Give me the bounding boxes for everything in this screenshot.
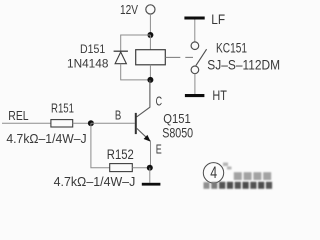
- wire: [91, 123, 110, 167]
- diode D151: [114, 51, 128, 64]
- wire: [149, 35, 151, 50]
- wire: [121, 35, 151, 51]
- svg-text:R152: R152: [107, 147, 134, 162]
- svg-text:HT: HT: [212, 88, 227, 103]
- svg-text:4: 4: [210, 163, 217, 182]
- svg-text:E: E: [156, 141, 162, 156]
- terminal HT bar: [185, 94, 205, 97]
- svg-text:4.7kΩ–1/4W–J: 4.7kΩ–1/4W–J: [54, 174, 136, 189]
- svg-text:SJ–S–112DM: SJ–S–112DM: [207, 57, 280, 72]
- wire: [132, 167, 150, 169]
- wire: [2, 122, 51, 124]
- wire: [150, 141, 152, 167]
- svg-text:Q151: Q151: [163, 111, 191, 126]
- wire: [149, 14, 151, 35]
- wire: [73, 122, 91, 124]
- transistor Q151: [135, 113, 151, 142]
- relay coil KC151: [136, 50, 166, 65]
- wire: [137, 80, 150, 117]
- svg-text:R151: R151: [51, 100, 74, 115]
- svg-text:C: C: [156, 94, 162, 109]
- wire: [149, 65, 151, 80]
- svg-text:S8050: S8050: [162, 125, 193, 141]
- watermark scribble: [223, 163, 232, 170]
- watermark line 2: [204, 182, 273, 189]
- watermark line 1: [234, 172, 271, 180]
- wire: [149, 168, 151, 183]
- resistor R152: [110, 164, 133, 172]
- svg-text:B: B: [115, 108, 121, 123]
- node 12V terminal: [146, 5, 155, 14]
- mechanical link: [165, 56, 193, 58]
- svg-text:D151: D151: [80, 42, 105, 56]
- wire: [194, 74, 196, 94]
- svg-text:4.7kΩ–1/4W–J: 4.7kΩ–1/4W–J: [6, 131, 86, 146]
- svg-text:KC151: KC151: [216, 41, 247, 56]
- wire: [91, 122, 135, 124]
- junction dot: [147, 165, 153, 171]
- wire: [121, 64, 151, 80]
- svg-text:1N4148: 1N4148: [67, 57, 109, 71]
- wire: [194, 19, 196, 42]
- svg-text:12V: 12V: [120, 2, 138, 17]
- label circled 4: [203, 163, 223, 183]
- junction dot: [147, 32, 153, 38]
- svg-text:REL: REL: [8, 108, 28, 123]
- resistor R151: [51, 120, 73, 127]
- junction dot: [147, 77, 153, 83]
- junction dot: [88, 120, 94, 126]
- terminal LF bar: [184, 17, 204, 20]
- svg-text:LF: LF: [211, 12, 225, 27]
- terminal ground bar: [142, 183, 161, 186]
- relay contact KC151: [191, 42, 207, 74]
